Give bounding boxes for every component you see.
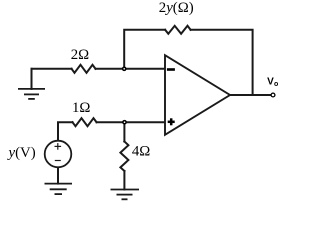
svg-text:4Ω: 4Ω xyxy=(132,144,150,160)
svg-text:y(V): y(V) xyxy=(7,145,36,161)
svg-text:2y(Ω): 2y(Ω) xyxy=(159,0,194,16)
svg-text:2Ω: 2Ω xyxy=(71,47,89,63)
svg-text:1Ω: 1Ω xyxy=(72,100,90,116)
